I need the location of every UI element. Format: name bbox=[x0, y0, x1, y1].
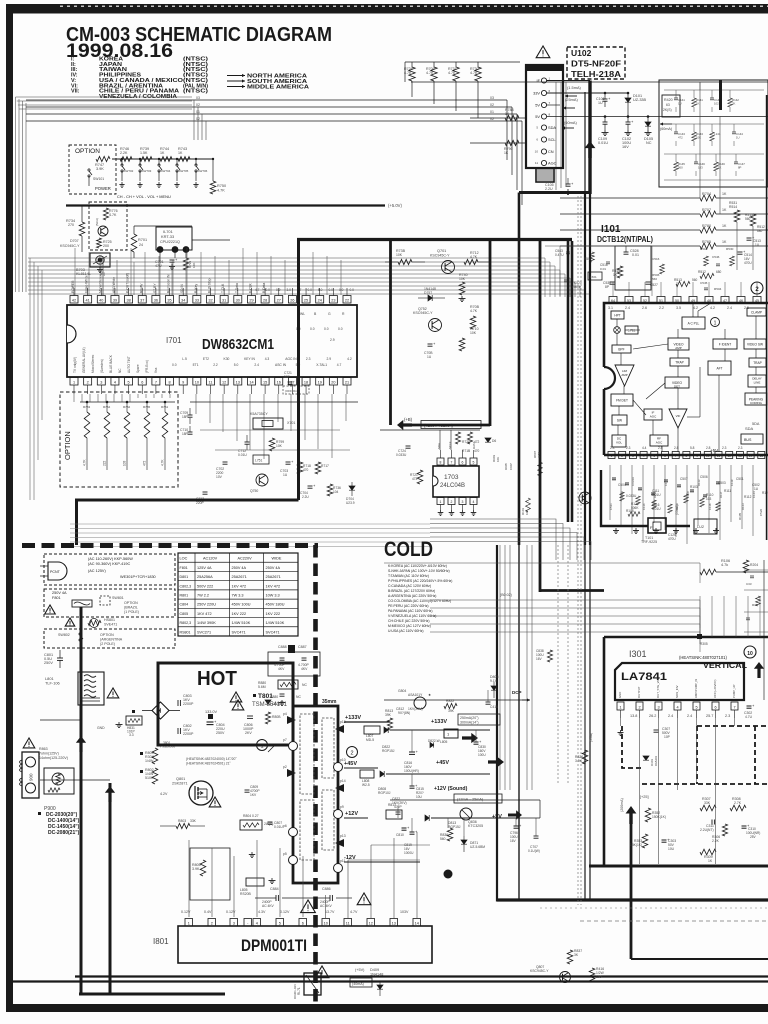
svg-text:38: 38 bbox=[126, 298, 130, 302]
svg-text:1KV 472: 1KV 472 bbox=[197, 612, 212, 616]
svg-text:02: 02 bbox=[196, 103, 200, 107]
svg-text:2.2: 2.2 bbox=[659, 306, 664, 310]
svg-text:1U: 1U bbox=[598, 101, 603, 105]
capacitor C514 470U bbox=[738, 251, 743, 253]
svg-text:5: 5 bbox=[473, 460, 475, 464]
svg-text:p4: p4 bbox=[283, 712, 287, 716]
dashed box OPTION power switch bbox=[69, 145, 116, 194]
svg-text:(HEATSINK:4837024501) 21ʺ: (HEATSINK:4837024501) 21ʺ bbox=[186, 762, 231, 766]
svg-text:300mA(14ʺ): 300mA(14ʺ) bbox=[460, 721, 479, 725]
svg-text:SW703: SW703 bbox=[142, 169, 152, 173]
svg-text:RS801: RS801 bbox=[180, 630, 191, 634]
svg-text:25: 25 bbox=[304, 298, 308, 302]
heavy wire y592 flyback feed bbox=[540, 589, 604, 592]
svg-text:C880: C880 bbox=[270, 695, 278, 699]
svg-text:2.8: 2.8 bbox=[674, 446, 679, 450]
capacitor forest bbox=[690, 489, 694, 491]
svg-text:C506: C506 bbox=[700, 475, 708, 479]
svg-text:39: 39 bbox=[113, 298, 117, 302]
component forest below I101 bbox=[609, 465, 611, 520]
switch SW702 bbox=[121, 158, 123, 160]
bus box bbox=[741, 434, 763, 444]
wire dcp rail bbox=[384, 699, 530, 701]
wire 1703 bus up bbox=[439, 430, 441, 450]
warning triangle plug bbox=[23, 738, 35, 748]
svg-text:C118: C118 bbox=[708, 503, 712, 510]
svg-text:50: 50 bbox=[675, 299, 679, 303]
svg-text:33: 33 bbox=[195, 298, 199, 302]
resistor R788 1K bbox=[505, 115, 519, 120]
svg-text:25A2671: 25A2671 bbox=[266, 575, 281, 579]
svg-text:26: 26 bbox=[290, 298, 294, 302]
arrow SOUTH AMERICA bbox=[227, 80, 245, 82]
capacitor C109 0.01U bbox=[604, 117, 606, 123]
svg-text:DET: DET bbox=[674, 385, 680, 389]
svg-text:4.7K: 4.7K bbox=[537, 452, 541, 458]
svg-text:A:ARGENTINA (AC 220V 50Hz): A:ARGENTINA (AC 220V 50Hz) bbox=[388, 594, 436, 598]
warning triangle above I801 bbox=[357, 893, 371, 905]
svg-text:C887: C887 bbox=[298, 645, 307, 649]
svg-text:10W 3.3: 10W 3.3 bbox=[266, 594, 280, 598]
svg-text:SCL: SCL bbox=[548, 137, 556, 142]
component C146 bbox=[695, 154, 697, 162]
svg-text:R528: R528 bbox=[620, 491, 624, 498]
svg-text:p6: p6 bbox=[283, 824, 287, 828]
transformer T801 windings bbox=[300, 714, 314, 794]
svg-text:42: 42 bbox=[72, 298, 76, 302]
svg-text:1N4148: 1N4148 bbox=[424, 287, 436, 291]
capacitor C810 16V 1000U bbox=[402, 827, 407, 829]
svg-text:C119: C119 bbox=[730, 479, 734, 486]
svg-text:C884: C884 bbox=[270, 887, 279, 891]
svg-text:100: 100 bbox=[596, 975, 602, 979]
svg-text:560: 560 bbox=[440, 837, 446, 841]
svg-text:1/4W 510K: 1/4W 510K bbox=[266, 621, 285, 625]
svg-text:33V: 33V bbox=[533, 91, 540, 96]
svg-text:R804: R804 bbox=[243, 814, 251, 818]
resistor R753 4.7K bbox=[86, 401, 89, 404]
component R146 bbox=[715, 154, 717, 162]
resistor forest bbox=[716, 502, 720, 511]
svg-text:10: 10 bbox=[747, 651, 753, 657]
wire harness left edge bbox=[15, 97, 17, 292]
svg-text:TV only(IV): TV only(IV) bbox=[73, 357, 77, 373]
block HPT bbox=[611, 311, 624, 319]
svg-text:1000U: 1000U bbox=[404, 851, 414, 855]
svg-text:4.7: 4.7 bbox=[337, 363, 342, 367]
svg-text:3: 3 bbox=[233, 921, 235, 925]
svg-text:R113: R113 bbox=[697, 479, 701, 486]
svg-text:I301: I301 bbox=[629, 649, 647, 659]
heavy bottom joiner bbox=[79, 993, 225, 996]
black node bbox=[697, 634, 702, 639]
svg-text:R-Key: R-Key bbox=[194, 283, 198, 293]
switch SW705 bbox=[176, 158, 178, 160]
svg-text:SVE471: SVE471 bbox=[104, 623, 117, 627]
component L141 bbox=[711, 124, 713, 132]
inductor L501 bbox=[588, 272, 602, 280]
svg-text:VIDEO SW: VIDEO SW bbox=[747, 343, 763, 347]
svg-text:DT5-NF20F: DT5-NF20F bbox=[571, 59, 621, 69]
capacitor C303 50V 10U bbox=[662, 839, 667, 841]
svg-text:A C PLL: A C PLL bbox=[688, 322, 700, 326]
resistor R809 R30K bbox=[140, 752, 143, 755]
svg-text:500V 222: 500V 222 bbox=[197, 584, 213, 588]
svg-text:470U: 470U bbox=[668, 537, 676, 541]
ident wire diagonal bbox=[698, 303, 711, 311]
svg-text:BUS Stop: BUS Stop bbox=[208, 278, 212, 293]
svg-text:4.7K: 4.7K bbox=[217, 189, 225, 193]
svg-text:12: 12 bbox=[369, 921, 373, 925]
svg-text:222: 222 bbox=[103, 460, 107, 466]
svg-text:p7: p7 bbox=[283, 738, 287, 742]
svg-text:ET1: ET1 bbox=[193, 363, 199, 367]
svg-text:11: 11 bbox=[717, 454, 721, 458]
switch SW703 bbox=[139, 158, 141, 160]
relay RL71 bbox=[304, 973, 321, 995]
svg-text:R822: R822 bbox=[446, 699, 454, 703]
svg-text:2.8: 2.8 bbox=[706, 446, 711, 450]
svg-text:C33: C33 bbox=[746, 582, 752, 586]
svg-text:R513: R513 bbox=[674, 278, 682, 282]
svg-text:C886: C886 bbox=[322, 887, 331, 891]
component C147 bbox=[735, 154, 737, 162]
svg-text:40: 40 bbox=[99, 298, 103, 302]
tuner pin 5V bbox=[541, 102, 546, 107]
svg-text:16: 16 bbox=[277, 380, 281, 384]
svg-text:52: 52 bbox=[643, 299, 647, 303]
heavy wire y425 to arrow bbox=[412, 424, 490, 427]
heavy AC line down left bbox=[80, 607, 83, 760]
transistor Q804 KSA101Y bbox=[414, 697, 426, 709]
svg-text:25.7: 25.7 bbox=[706, 714, 713, 718]
svg-text:OUTPUT: OUTPUT bbox=[637, 686, 641, 698]
right strip extra components bbox=[744, 569, 768, 571]
block A C PLL bbox=[682, 317, 705, 329]
heavy wire x390 up bbox=[389, 240, 392, 425]
svg-text:Q752: Q752 bbox=[418, 307, 427, 311]
block DELAY LINE bbox=[748, 375, 766, 387]
svg-text:25V: 25V bbox=[750, 835, 757, 839]
svg-text:AUTO TINT: AUTO TINT bbox=[127, 356, 131, 373]
svg-text:10: 10 bbox=[535, 150, 539, 154]
svg-text:AMP: AMP bbox=[621, 373, 627, 377]
svg-text:28: 28 bbox=[263, 298, 267, 302]
svg-text:R755: R755 bbox=[143, 405, 151, 409]
capacitor forest bbox=[664, 479, 668, 481]
svg-text:48: 48 bbox=[707, 299, 711, 303]
svg-text:4.7k: 4.7k bbox=[721, 563, 728, 567]
svg-text:250V: 250V bbox=[216, 731, 225, 735]
heavy line 200mA down bbox=[626, 806, 637, 824]
svg-text:Mono/Stereo: Mono/Stereo bbox=[91, 355, 95, 373]
wire harness left lower bbox=[29, 258, 31, 500]
svg-text:C531: C531 bbox=[609, 503, 613, 510]
resistor R837 3K bbox=[567, 950, 573, 964]
svg-text:1U: 1U bbox=[736, 136, 740, 140]
svg-text:+45V: +45V bbox=[436, 760, 449, 766]
wires secondary to DPM bbox=[188, 840, 190, 917]
svg-text:C117: C117 bbox=[664, 479, 668, 486]
ground sense bbox=[251, 852, 253, 855]
svg-text:3: 3 bbox=[657, 705, 659, 709]
block SW bbox=[612, 415, 627, 425]
arrow NORTH AMERICA bbox=[227, 75, 245, 77]
svg-text:DCP: DCP bbox=[512, 690, 522, 695]
block DC VOL bbox=[612, 435, 626, 447]
resistor R308 2.7K bbox=[730, 805, 746, 811]
capacitor C702 2200 10V bbox=[223, 461, 228, 463]
warning triangle L801 bbox=[107, 688, 119, 698]
svg-text:2SK2871: 2SK2871 bbox=[172, 782, 188, 786]
svg-text:18P: 18P bbox=[182, 415, 188, 419]
wire tuner SDA bbox=[470, 117, 526, 119]
capacitor forest bbox=[625, 482, 629, 484]
sense box bbox=[190, 848, 230, 900]
wire drops to corner bbox=[555, 82, 557, 190]
vif amp triangle bbox=[669, 409, 687, 428]
connector P900 plug body bbox=[22, 752, 39, 798]
svg-text:0.12V: 0.12V bbox=[280, 910, 290, 914]
svg-text:4.4: 4.4 bbox=[642, 446, 647, 450]
svg-text:CO:COLOMBIA (AC 110V/(0)/127V: CO:COLOMBIA (AC 110V/(0)/127V 60Hz) bbox=[388, 599, 451, 603]
svg-text:R123: R123 bbox=[741, 503, 745, 510]
svg-text:V:VENEZUELA (AC 110V 60Hz): V:VENEZUELA (AC 110V 60Hz) bbox=[388, 614, 436, 618]
svg-text:2KV: 2KV bbox=[245, 731, 252, 735]
heavy AC line 2 bbox=[109, 783, 112, 995]
svg-text:5.0: 5.0 bbox=[318, 288, 323, 292]
svg-text:0.033U: 0.033U bbox=[631, 477, 635, 486]
tuner pin 33V bbox=[541, 90, 546, 95]
svg-text:560: 560 bbox=[678, 166, 683, 170]
block CLAMP bbox=[747, 308, 766, 316]
svg-text:3.3: 3.3 bbox=[129, 733, 134, 737]
svg-text:KSC945C-Y: KSC945C-Y bbox=[530, 969, 549, 973]
svg-text:SD IN: SD IN bbox=[180, 284, 184, 293]
svg-text:WE301P+TCR+1830: WE301P+TCR+1830 bbox=[120, 575, 156, 579]
block AFT bbox=[708, 361, 731, 375]
svg-text:PUMP_UP: PUMP_UP bbox=[732, 684, 736, 698]
svg-text:30: 30 bbox=[236, 298, 240, 302]
svg-text:SW101: SW101 bbox=[93, 177, 104, 181]
svg-text:R752: R752 bbox=[123, 405, 131, 409]
svg-text:0.0: 0.0 bbox=[324, 327, 329, 331]
svg-text:0.12V: 0.12V bbox=[181, 910, 191, 914]
svg-text:0.0: 0.0 bbox=[339, 288, 344, 292]
svg-text:47: 47 bbox=[723, 299, 727, 303]
block FM DET bbox=[611, 394, 633, 406]
svg-text:SDA: SDA bbox=[437, 443, 441, 449]
svg-text:I801: I801 bbox=[153, 937, 169, 946]
svg-text:Vss: Vss bbox=[154, 367, 158, 373]
svg-text:18P: 18P bbox=[182, 432, 188, 436]
svg-text:p5: p5 bbox=[283, 852, 287, 856]
svg-text:P:PHILIPPINES (AC 220/240V+-5%: P:PHILIPPINES (AC 220/240V+-5% 60Hz) bbox=[388, 579, 452, 583]
wire harness cpu to if bbox=[28, 257, 545, 259]
svg-text:0.12V: 0.12V bbox=[226, 910, 236, 914]
svg-text:4.2: 4.2 bbox=[347, 357, 352, 361]
resistor R701 24 bbox=[131, 234, 137, 252]
svg-text:5: 5 bbox=[279, 921, 281, 925]
svg-text:10U: 10U bbox=[416, 795, 423, 799]
svg-text:26.2: 26.2 bbox=[649, 714, 656, 718]
svg-text:SW705: SW705 bbox=[179, 169, 189, 173]
resistor R416 100 bbox=[589, 968, 595, 982]
svg-text:1KV 472: 1KV 472 bbox=[266, 584, 281, 588]
svg-text:3: 3 bbox=[100, 380, 102, 384]
heavy wire B+ top rail bbox=[297, 238, 572, 241]
wire harness left horizontal bbox=[16, 96, 193, 98]
svg-text:SCLK: SCLK bbox=[448, 441, 452, 449]
resistor forest bbox=[700, 498, 704, 507]
capacitor C802 1KV 2200P bbox=[177, 728, 179, 734]
svg-text:250V 4A: 250V 4A bbox=[52, 591, 67, 595]
svg-text:AVG White: AVG White bbox=[112, 277, 116, 293]
ic I301 LA7841 body bbox=[615, 663, 744, 700]
capacitor C804 220U 250V bbox=[208, 714, 213, 719]
svg-text:46: 46 bbox=[739, 299, 743, 303]
svg-text:1K: 1K bbox=[160, 151, 165, 155]
svg-text:1K: 1K bbox=[722, 224, 727, 228]
mixer circle bbox=[614, 327, 621, 334]
svg-text:680: 680 bbox=[757, 229, 763, 233]
svg-text:1U: 1U bbox=[283, 473, 288, 477]
svg-text:p14: p14 bbox=[340, 779, 346, 783]
svg-text:0.0: 0.0 bbox=[308, 288, 313, 292]
svg-text:472: 472 bbox=[143, 460, 147, 466]
svg-text:22: 22 bbox=[345, 298, 349, 302]
svg-text:0.0: 0.0 bbox=[310, 327, 315, 331]
svg-text:D801: D801 bbox=[180, 575, 189, 579]
heavy wire 5V rail keypad bbox=[66, 204, 385, 206]
svg-text:WL: WL bbox=[300, 312, 305, 316]
wire harness verticals above I701 bbox=[74, 248, 76, 295]
svg-text:SW706: SW706 bbox=[198, 169, 208, 173]
svg-text:R109: R109 bbox=[675, 503, 679, 510]
ic IL701 pin pads bbox=[157, 246, 164, 253]
svg-text:(45MA→35MA): (45MA→35MA) bbox=[424, 423, 453, 428]
svg-text:4.7K: 4.7K bbox=[426, 71, 434, 75]
svg-text:33K: 33K bbox=[190, 819, 197, 823]
svg-text:PA:PANAMA (AC 110V 60Hz): PA:PANAMA (AC 110V 60Hz) bbox=[388, 609, 432, 613]
svg-text:R803: R803 bbox=[178, 819, 186, 823]
svg-text:D707: D707 bbox=[70, 239, 79, 243]
resistor R754 222 bbox=[106, 401, 109, 404]
svg-text:R305: R305 bbox=[700, 642, 708, 646]
wire stair bundle bbox=[430, 519, 556, 560]
switch SW801 option brazil bbox=[100, 596, 110, 605]
svg-text:AC120V: AC120V bbox=[203, 557, 218, 561]
svg-text:510K: 510K bbox=[145, 776, 154, 780]
svg-text:TRAP: TRAP bbox=[675, 361, 684, 365]
svg-text:41: 41 bbox=[86, 298, 90, 302]
resistor R751 4.7K bbox=[164, 401, 167, 404]
svg-text:(200mA): (200mA) bbox=[620, 798, 624, 812]
rail +133V bbox=[344, 721, 390, 723]
block PEAKING CORING bbox=[745, 393, 767, 405]
capacitor C807 0.01U bbox=[268, 821, 273, 823]
svg-text:1K: 1K bbox=[505, 112, 510, 116]
transistor Q750 KSC945C bbox=[256, 474, 268, 486]
capacitor forest bbox=[612, 477, 616, 479]
svg-text:F IDENT: F IDENT bbox=[719, 343, 731, 347]
component C144 bbox=[733, 124, 735, 132]
svg-text:+45V: +45V bbox=[344, 761, 357, 767]
svg-text:KSC945C-Y: KSC945C-Y bbox=[60, 244, 80, 248]
svg-text:1000P: 1000P bbox=[572, 285, 581, 289]
svg-text:AC 4KV: AC 4KV bbox=[320, 904, 333, 908]
svg-text:AC220V: AC220V bbox=[238, 557, 253, 561]
svg-text:6: 6 bbox=[141, 380, 143, 384]
resistor R836 560 bbox=[447, 828, 453, 841]
svg-text:K30: K30 bbox=[224, 357, 230, 361]
svg-text:F801: F801 bbox=[52, 596, 61, 600]
svg-text:10: 10 bbox=[324, 921, 328, 925]
transformer T801 body bbox=[293, 706, 338, 883]
capacitor C830 100U bbox=[474, 741, 479, 743]
svg-text:R105: R105 bbox=[738, 512, 742, 520]
svg-text:(5mA): (5mA) bbox=[95, 218, 99, 226]
svg-text:C804: C804 bbox=[180, 603, 189, 607]
heavy wire x497 down bbox=[496, 545, 498, 902]
svg-text:L.5: L.5 bbox=[182, 357, 187, 361]
svg-text:DC-2080(21ʺ): DC-2080(21ʺ) bbox=[48, 829, 80, 836]
tuner pin CN bbox=[541, 149, 546, 154]
svg-text:5V: 5V bbox=[535, 114, 540, 119]
arrow AC2 up bbox=[105, 786, 115, 802]
svg-text:(5mA): (5mA) bbox=[589, 733, 593, 742]
svg-text:VOL: VOL bbox=[616, 441, 622, 445]
svg-text:7: 7 bbox=[675, 454, 677, 458]
svg-text:4: 4 bbox=[473, 500, 475, 504]
svg-text:31: 31 bbox=[222, 298, 226, 302]
svg-text:I701: I701 bbox=[166, 336, 182, 345]
svg-text:2.2: 2.2 bbox=[213, 363, 218, 367]
svg-text:NC: NC bbox=[296, 695, 301, 699]
svg-text:(2 POLE): (2 POLE) bbox=[100, 642, 115, 646]
svg-text:Video White: Video White bbox=[85, 275, 89, 293]
svg-text:p2: p2 bbox=[283, 765, 287, 769]
svg-text:250V: 250V bbox=[44, 661, 53, 665]
svg-text:NC: NC bbox=[646, 141, 652, 145]
svg-text:250V 220U: 250V 220U bbox=[197, 603, 216, 607]
resistor R805 3.9K bbox=[200, 860, 206, 876]
table power parts by region bbox=[178, 553, 298, 636]
svg-text:C:CANADA (AC 120V 60Hz): C:CANADA (AC 120V 60Hz) bbox=[388, 584, 431, 588]
svg-text:560: 560 bbox=[692, 278, 698, 282]
svg-text:T-CLK: T-CLK bbox=[221, 283, 225, 293]
svg-text:3.5: 3.5 bbox=[676, 306, 681, 310]
transistor Q101 bbox=[579, 492, 591, 504]
svg-text:45: 45 bbox=[755, 299, 759, 303]
switch SW101 bbox=[88, 169, 90, 171]
wires I801 right pins up bbox=[325, 895, 327, 918]
svg-text:1: 1 bbox=[611, 454, 613, 458]
svg-text:6: 6 bbox=[714, 705, 716, 709]
svg-text:14: 14 bbox=[415, 921, 419, 925]
svg-text:L501: L501 bbox=[590, 275, 597, 279]
block TRAP bbox=[749, 358, 766, 367]
svg-text:14ohm(125-220V): 14ohm(125-220V) bbox=[39, 756, 68, 760]
ground I301 pin1 bbox=[620, 730, 622, 733]
capacitor C819 16V 1000U bbox=[410, 831, 415, 833]
page border left bar bbox=[6, 4, 13, 1012]
svg-text:T-Data: T-Data bbox=[235, 283, 239, 293]
heavy primary box bbox=[158, 663, 293, 745]
svg-text:53: 53 bbox=[627, 299, 631, 303]
svg-text:L141: L141 bbox=[714, 132, 721, 136]
svg-text:5.6M: 5.6M bbox=[258, 685, 266, 689]
